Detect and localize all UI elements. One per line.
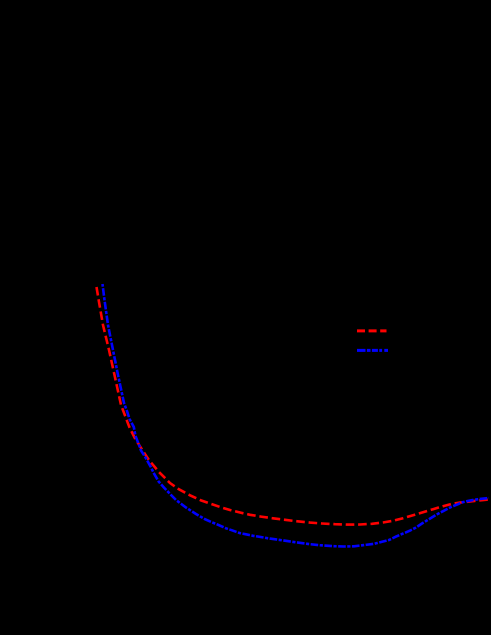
red dashed curve — [97, 287, 490, 525]
legend red dashed sample — [357, 329, 387, 332]
legend blue dash-dot sample — [357, 349, 388, 352]
blue dash-dot curve — [103, 284, 490, 547]
